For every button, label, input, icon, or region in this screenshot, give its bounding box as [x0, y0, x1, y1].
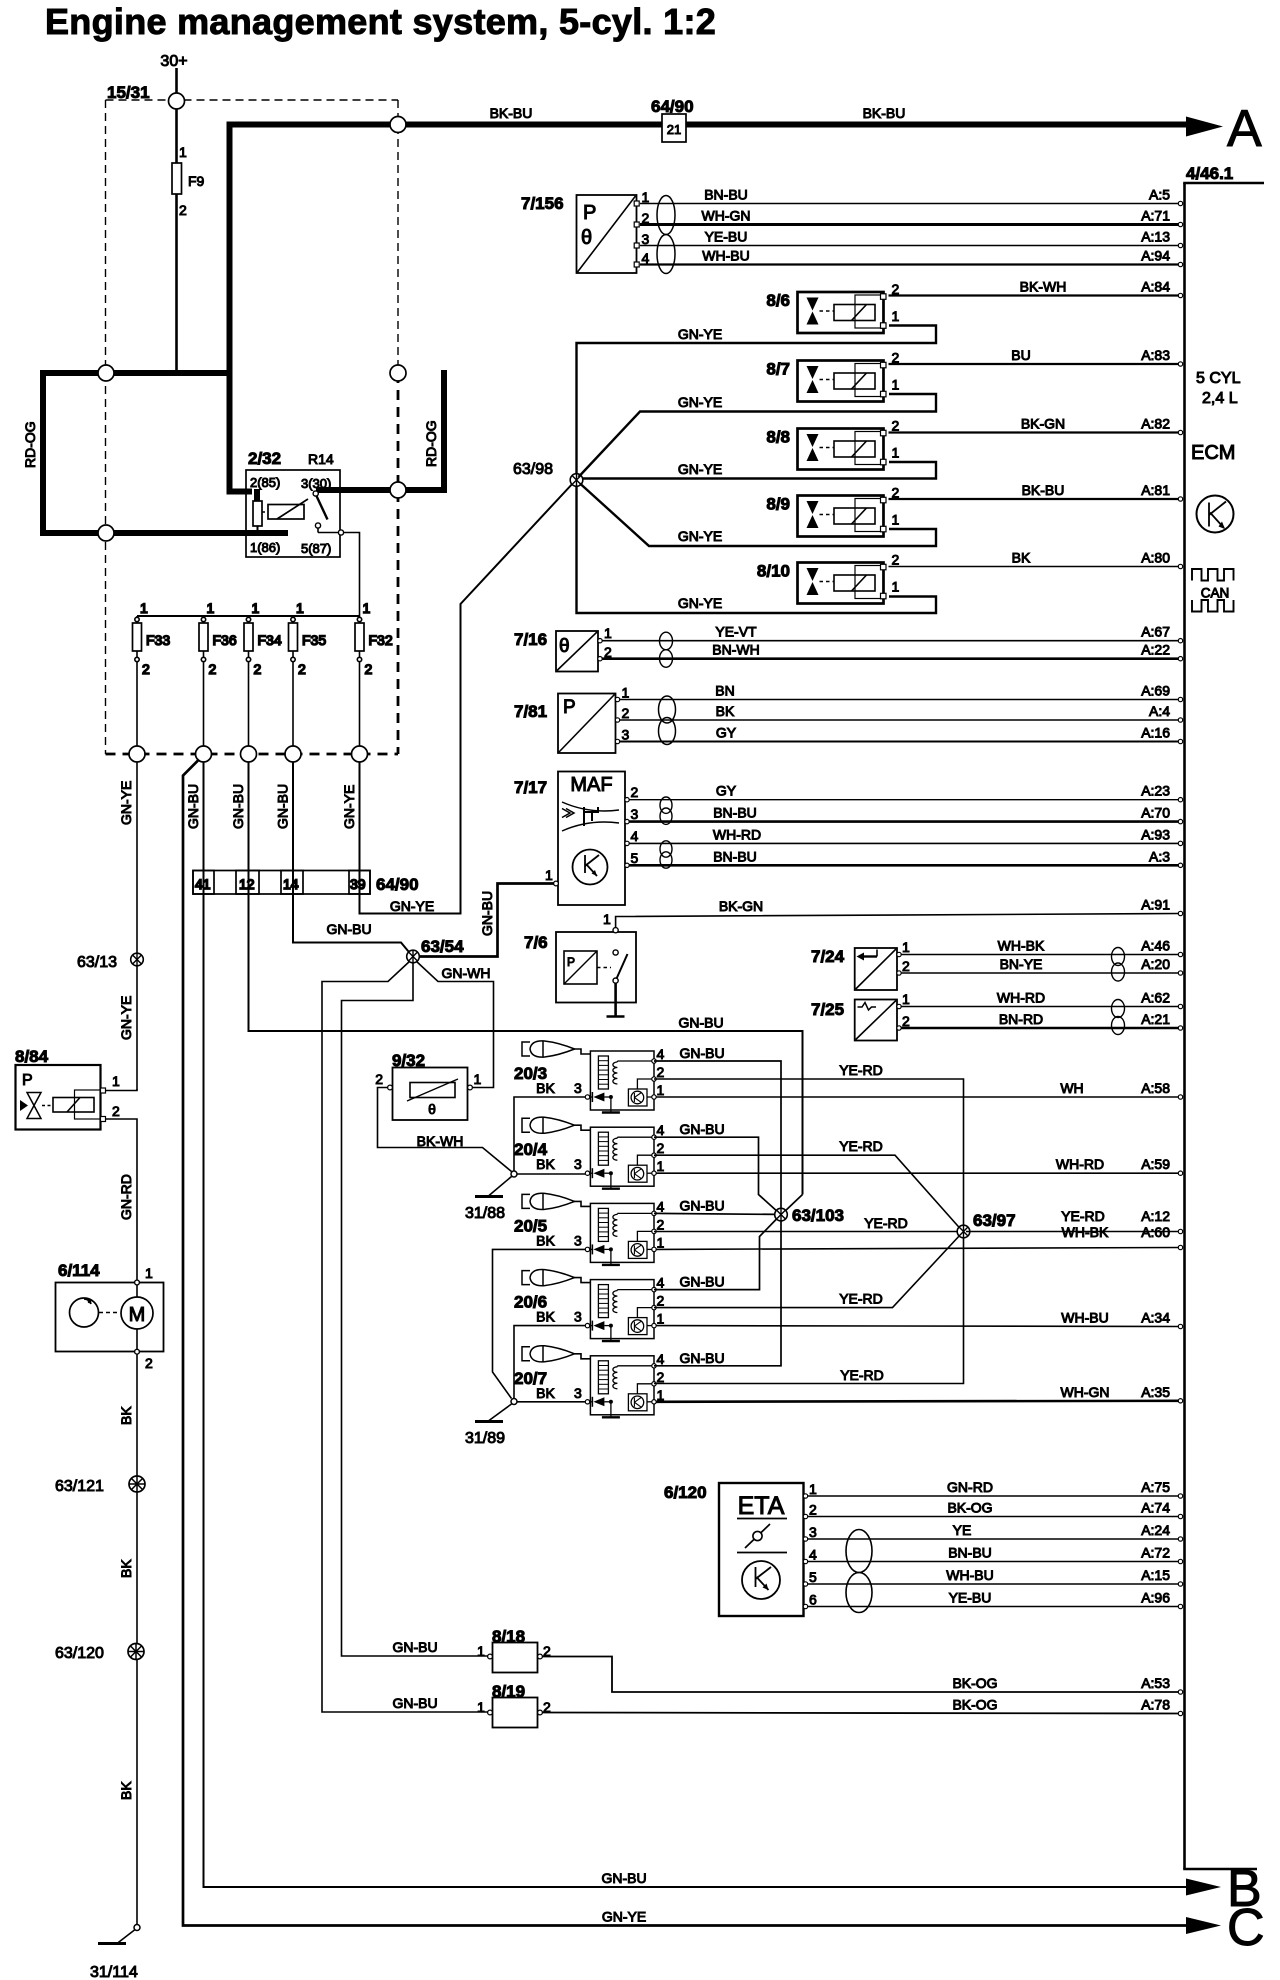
wire BK-GN A:82 — [889, 416, 1183, 435]
svg-text:1: 1 — [892, 308, 900, 324]
mass air flow sensor 7/17 — [514, 772, 639, 906]
svg-text:WH-BU: WH-BU — [1061, 1310, 1108, 1326]
svg-text:A:75: A:75 — [1141, 1479, 1170, 1495]
svg-text:YE-RD: YE-RD — [840, 1367, 884, 1383]
wire WH-BU A:34 — [656, 1310, 1183, 1329]
wire BK-GN 7/6 to ECM A:91 — [616, 914, 1180, 928]
svg-text:A:5: A:5 — [1149, 187, 1170, 203]
svg-text:A:20: A:20 — [1141, 956, 1170, 972]
svg-text:GN-YE: GN-YE — [118, 996, 134, 1040]
svg-text:1: 1 — [545, 867, 553, 883]
svg-text:3: 3 — [574, 1309, 582, 1325]
wire GN-YE F33 down — [136, 762, 138, 1090]
svg-text:WH-BK: WH-BK — [998, 938, 1045, 954]
wire YE-RD 20/4 pin2 — [654, 1155, 961, 1229]
labels A:78 — [952, 1697, 1182, 1716]
svg-text:GN-BU: GN-BU — [679, 1121, 724, 1137]
svg-text:GN-BU: GN-BU — [679, 1197, 724, 1213]
svg-text:2: 2 — [657, 1140, 665, 1156]
twisted pair 7/24 — [1112, 948, 1125, 966]
ignition coil 20/4 — [514, 1117, 665, 1189]
wire WH-GN A:71 — [640, 208, 1183, 227]
svg-text:2(85): 2(85) — [250, 475, 280, 490]
relay switch — [313, 491, 318, 496]
solenoid valve 8/84 — [15, 1047, 120, 1130]
wire WH-RD A:62 — [901, 990, 1183, 1009]
wire RD-OG loop left — [40, 373, 46, 533]
svg-text:ECM: ECM — [1191, 442, 1235, 464]
wire fuse feed rail — [137, 615, 360, 617]
svg-text:F34: F34 — [258, 632, 282, 648]
valve cross — [27, 1093, 41, 1106]
svg-text:63/97: 63/97 — [973, 1211, 1016, 1230]
svg-text:1: 1 — [477, 1699, 485, 1715]
svg-text:4: 4 — [809, 1547, 817, 1563]
svg-text:A:74: A:74 — [1141, 1500, 1170, 1516]
svg-text:A:96: A:96 — [1141, 1590, 1170, 1606]
svg-text:BN-YE: BN-YE — [1000, 956, 1043, 972]
svg-text:5 CYL: 5 CYL — [1196, 370, 1241, 387]
svg-text:A:16: A:16 — [1141, 725, 1170, 741]
wire RD-OG bottom to relay 1(86) — [40, 530, 288, 536]
svg-text:A:80: A:80 — [1141, 550, 1170, 566]
svg-text:4: 4 — [631, 828, 639, 844]
svg-text:7/25: 7/25 — [811, 1000, 844, 1019]
wire GN-YE 8/6 return — [577, 326, 937, 475]
svg-text:θ: θ — [581, 227, 592, 249]
wire BK-WH A:84 — [889, 279, 1183, 298]
svg-text:63/98: 63/98 — [513, 461, 553, 478]
svg-text:2: 2 — [365, 661, 373, 677]
svg-text:RD-OG: RD-OG — [423, 420, 439, 467]
svg-text:BN-BU: BN-BU — [713, 848, 757, 864]
wire BN A:69 — [620, 683, 1183, 702]
svg-text:A:24: A:24 — [1141, 1522, 1170, 1538]
svg-text:BK-OG: BK-OG — [952, 1675, 997, 1691]
fuel pump 6/114 — [56, 1261, 164, 1371]
svg-text:3: 3 — [574, 1080, 582, 1096]
svg-text:A:23: A:23 — [1141, 783, 1170, 799]
throttle unit 6/120 ETA — [664, 1481, 817, 1616]
svg-text:1: 1 — [657, 1311, 665, 1327]
svg-text:2: 2 — [298, 661, 306, 677]
wire GN-BU 20/6 pin4 — [654, 1217, 779, 1290]
svg-text:2: 2 — [902, 958, 910, 974]
svg-text:3(30): 3(30) — [301, 476, 331, 491]
svg-text:GN-BU: GN-BU — [230, 784, 246, 829]
injector 8/10 — [757, 552, 900, 604]
sensor 7/156 pressure/temp — [521, 189, 650, 273]
wire relay 3(30) to RD-OG right — [316, 487, 447, 493]
svg-text:8/10: 8/10 — [757, 562, 790, 581]
svg-text:3: 3 — [809, 1524, 817, 1540]
svg-text:GN-YE: GN-YE — [678, 595, 722, 611]
svg-text:31/89: 31/89 — [465, 1430, 505, 1447]
sensor 7/16 temp — [514, 625, 612, 672]
terminal A:91 — [1141, 897, 1183, 916]
svg-text:7/16: 7/16 — [514, 630, 547, 649]
svg-text:3: 3 — [642, 231, 650, 247]
wire YE-BU A:96 — [808, 1590, 1183, 1609]
wire GN-YE 8/7 return — [579, 394, 937, 477]
relay 2/32 R14 — [246, 449, 344, 557]
svg-text:8/6: 8/6 — [766, 291, 790, 310]
wire BK 6/114 down to ground — [136, 1354, 138, 1925]
wire 8/84 pin2 GN-RD down to 6/114 — [106, 1119, 137, 1280]
svg-text:CAN: CAN — [1201, 586, 1230, 601]
svg-text:Engine management system, 5-cy: Engine management system, 5-cyl. 1:2 — [45, 1, 716, 42]
svg-text:2: 2 — [179, 202, 187, 218]
twisted pair 7/16 — [660, 632, 673, 650]
wire thick into relay 2(85) — [230, 489, 253, 492]
speed sensor 7/24 — [811, 939, 910, 990]
svg-text:5: 5 — [631, 850, 639, 866]
svg-text:63/121: 63/121 — [55, 1478, 104, 1495]
injector 8/9 — [766, 485, 899, 537]
svg-text:2: 2 — [142, 661, 150, 677]
wire YE-RD 20/6 pin2 — [654, 1234, 961, 1308]
svg-text:A:15: A:15 — [1141, 1567, 1170, 1583]
svg-text:7/24: 7/24 — [811, 947, 845, 966]
fuse F33 — [133, 600, 171, 754]
arrow B — [1186, 1879, 1221, 1896]
svg-text:2: 2 — [375, 1071, 383, 1087]
svg-text:GN-YE: GN-YE — [678, 461, 722, 477]
svg-text:2: 2 — [657, 1064, 665, 1080]
wire BK-WH 9/32 pin2 to coil BK node — [378, 1088, 512, 1172]
svg-text:A:69: A:69 — [1141, 683, 1170, 699]
svg-text:1: 1 — [892, 512, 900, 528]
svg-text:P: P — [563, 697, 576, 718]
svg-text:A:67: A:67 — [1141, 624, 1170, 640]
svg-text:63/54: 63/54 — [421, 937, 464, 956]
svg-text:1: 1 — [145, 1265, 153, 1281]
junction bus x dashed — [390, 117, 406, 133]
svg-text:WH: WH — [1060, 1080, 1083, 1096]
wire BK 20/7 from node — [517, 1401, 585, 1403]
svg-text:1: 1 — [604, 625, 612, 641]
svg-text:BK-OG: BK-OG — [952, 1697, 997, 1713]
svg-text:1: 1 — [642, 189, 650, 205]
svg-text:A:84: A:84 — [1141, 279, 1170, 295]
ground 31/89 — [489, 1404, 512, 1421]
injector 8/7 — [766, 350, 899, 402]
labels A:53 — [952, 1675, 1182, 1694]
svg-text:1: 1 — [657, 1082, 665, 1098]
svg-text:WH-BK: WH-BK — [1062, 1224, 1109, 1240]
svg-text:WH-GN: WH-GN — [1061, 1384, 1110, 1400]
svg-text:2: 2 — [892, 552, 900, 568]
svg-text:F32: F32 — [369, 632, 393, 648]
svg-text:2: 2 — [809, 1502, 817, 1518]
svg-text:5(87): 5(87) — [301, 541, 331, 556]
svg-text:BK-GN: BK-GN — [1021, 416, 1065, 432]
svg-text:GN-YE: GN-YE — [390, 898, 434, 914]
svg-text:A:81: A:81 — [1141, 482, 1170, 498]
svg-text:1: 1 — [622, 685, 630, 701]
svg-text:A:35: A:35 — [1141, 1384, 1170, 1400]
svg-text:2: 2 — [112, 1103, 120, 1119]
wire BK-OG A:74 — [808, 1500, 1183, 1519]
svg-text:2: 2 — [902, 1013, 910, 1029]
wire GN-BU F36 down to arrow B — [204, 762, 1193, 1887]
wire GN-YE F32 down to 63/98 riser — [360, 482, 575, 914]
svg-text:7/17: 7/17 — [514, 778, 547, 797]
svg-text:A:3: A:3 — [1149, 848, 1170, 864]
svg-text:A:21: A:21 — [1141, 1011, 1170, 1027]
svg-text:4: 4 — [657, 1046, 665, 1062]
ignition coil 20/3 — [514, 1040, 665, 1112]
svg-text:BK: BK — [536, 1385, 555, 1401]
wire BK 20/3 to node — [514, 1097, 585, 1171]
svg-text:GN-YE: GN-YE — [678, 326, 722, 342]
wire relay 5(87) to fuse row — [344, 533, 360, 617]
svg-text:2: 2 — [631, 784, 639, 800]
relay coil resistor — [254, 489, 260, 501]
wire RD-OG right vertical — [441, 370, 447, 493]
wire BN-BU A:5 — [640, 187, 1183, 206]
svg-text:A:53: A:53 — [1141, 1675, 1170, 1691]
svg-text:BK-GN: BK-GN — [719, 898, 763, 914]
svg-text:BK: BK — [118, 1781, 134, 1800]
wire GN-BU feed diagonal into 63/103 — [783, 1195, 803, 1214]
svg-text:ETA: ETA — [738, 1492, 785, 1520]
svg-text:A:72: A:72 — [1141, 1545, 1170, 1561]
svg-text:GN-BU: GN-BU — [479, 891, 495, 936]
wire WH-BK A:60 — [656, 1224, 1183, 1250]
wire GN-BU F34 down — [249, 762, 803, 1195]
svg-text:1: 1 — [892, 377, 900, 393]
wire F9 to RD-OG bus — [175, 194, 178, 373]
svg-text:15/31: 15/31 — [107, 83, 150, 102]
svg-text:5: 5 — [809, 1569, 817, 1585]
svg-text:GN-BU: GN-BU — [601, 1870, 646, 1886]
svg-text:63/103: 63/103 — [792, 1206, 844, 1225]
wire GN-RD A:75 — [808, 1479, 1183, 1498]
knock sensor 7/25 — [811, 991, 910, 1041]
svg-text:3: 3 — [622, 727, 630, 743]
svg-text:WH-BU: WH-BU — [946, 1567, 993, 1583]
wire BN-WH A:22 — [602, 642, 1183, 661]
wire 63/54 diag to 8/19 — [322, 961, 490, 1713]
svg-text:3: 3 — [574, 1385, 582, 1401]
wire YE-RD 20/5 pin2 — [654, 1231, 964, 1233]
svg-text:P: P — [567, 955, 575, 969]
svg-text:GN-BU: GN-BU — [679, 1045, 724, 1061]
svg-text:BN: BN — [715, 683, 734, 699]
svg-text:F33: F33 — [146, 632, 170, 648]
svg-text:2,4 L: 2,4 L — [1202, 390, 1238, 407]
svg-text:63/120: 63/120 — [55, 1645, 104, 1662]
svg-text:C: C — [1227, 1899, 1265, 1957]
svg-text:BK-WH: BK-WH — [1020, 279, 1067, 295]
svg-text:2: 2 — [892, 418, 900, 434]
svg-text:8/84: 8/84 — [15, 1047, 49, 1066]
svg-text:2: 2 — [254, 661, 262, 677]
svg-text:8/9: 8/9 — [766, 495, 790, 514]
node coil BK lower — [511, 1399, 517, 1405]
svg-text:3: 3 — [574, 1232, 582, 1248]
svg-text:63/13: 63/13 — [77, 954, 117, 971]
svg-text:2: 2 — [657, 1293, 665, 1309]
wire GN-YE 8/9 return — [580, 484, 936, 547]
twisted pair 7/81 — [659, 696, 676, 723]
svg-text:F35: F35 — [302, 632, 326, 648]
svg-text:6: 6 — [809, 1592, 817, 1608]
svg-text:30+: 30+ — [160, 53, 187, 70]
svg-text:A:70: A:70 — [1141, 805, 1170, 821]
svg-text:1: 1 — [474, 1071, 482, 1087]
svg-text:8/8: 8/8 — [766, 428, 790, 447]
svg-text:BK-BU: BK-BU — [490, 105, 533, 121]
svg-text:3: 3 — [574, 1156, 582, 1172]
wire GN-BU 20/4 pin4 — [654, 1137, 779, 1213]
svg-text:R14: R14 — [308, 451, 334, 467]
svg-text:39: 39 — [350, 876, 366, 892]
wire GN-WH 63/54 to 9/32 pin1 — [416, 961, 494, 1088]
junction 63/103 — [775, 1208, 788, 1221]
wire WH-GN A:35 — [656, 1384, 1183, 1403]
CAN symbol — [1192, 569, 1234, 581]
svg-text:1: 1 — [892, 445, 900, 461]
junction 30+ on dashed box — [169, 93, 185, 109]
twisted pair 7/17 a — [660, 797, 672, 813]
fuse F9 — [172, 163, 182, 194]
ECM driver symbol — [1197, 496, 1234, 533]
svg-text:1: 1 — [296, 600, 304, 616]
svg-text:7/81: 7/81 — [514, 702, 547, 721]
ignition coil 20/7 — [514, 1345, 665, 1417]
svg-text:1: 1 — [902, 939, 910, 955]
svg-text:A:13: A:13 — [1141, 229, 1170, 245]
svg-text:BN-BU: BN-BU — [948, 1545, 992, 1561]
wire RD-OG top — [40, 370, 233, 376]
svg-text:BN-WH: BN-WH — [712, 642, 759, 658]
svg-text:1: 1 — [477, 1643, 485, 1659]
svg-text:GN-BU: GN-BU — [275, 784, 291, 829]
arrow C — [1186, 1917, 1221, 1934]
wire GY A:23 — [629, 783, 1183, 802]
wire 63/54 to MAF pin1 GN-BU — [414, 884, 556, 957]
svg-text:1: 1 — [112, 1073, 120, 1089]
svg-text:6/114: 6/114 — [58, 1261, 100, 1280]
svg-text:GN-BU: GN-BU — [326, 921, 371, 937]
svg-text:31/88: 31/88 — [465, 1205, 505, 1222]
junction RD-OG bottom x dashed — [98, 525, 114, 541]
relay coil — [268, 505, 304, 520]
injector 8/6 — [766, 281, 899, 333]
wire WH-BU A:94 — [640, 248, 1183, 267]
junction RD-OG top x dashed — [98, 365, 114, 381]
twisted pair 6/120 — [846, 1530, 872, 1573]
ignition coil 20/6 — [514, 1269, 665, 1341]
svg-text:A:83: A:83 — [1141, 347, 1170, 363]
ECM 4/46.1 connector column — [1183, 164, 1264, 1869]
ignition coil 20/5 — [514, 1193, 665, 1265]
svg-text:GN-YE: GN-YE — [118, 781, 134, 825]
svg-text:A:91: A:91 — [1141, 897, 1170, 913]
svg-text:F36: F36 — [213, 632, 237, 648]
svg-text:BK-WH: BK-WH — [417, 1133, 464, 1149]
wire main BK-BU bus to A — [230, 125, 1193, 495]
svg-text:2/32: 2/32 — [248, 449, 281, 468]
svg-text:7/156: 7/156 — [521, 194, 564, 213]
wire WH A:58 — [656, 1080, 1183, 1099]
svg-text:A:71: A:71 — [1141, 208, 1170, 224]
injector 8/8 — [766, 418, 899, 470]
svg-text:3: 3 — [631, 806, 639, 822]
svg-text:BN-BU: BN-BU — [713, 805, 757, 821]
wire BN-RD A:21 — [901, 1011, 1183, 1030]
svg-text:GN-BU: GN-BU — [392, 1639, 437, 1655]
svg-text:MAF: MAF — [570, 774, 612, 796]
wire GN-BU F35 down to 63/54 — [293, 762, 411, 955]
wire BK 20/6 to lower node — [514, 1326, 585, 1399]
wire WH-RD A:93 — [629, 826, 1183, 845]
svg-text:YE-BU: YE-BU — [705, 229, 748, 245]
fuse F34 — [244, 600, 282, 754]
svg-text:WH-RD: WH-RD — [1056, 1156, 1104, 1172]
svg-text:GN-YE: GN-YE — [678, 528, 722, 544]
svg-text:BK: BK — [716, 703, 735, 719]
fuse F32 — [355, 600, 393, 754]
svg-text:WH-RD: WH-RD — [997, 990, 1045, 1006]
svg-text:GN-BU: GN-BU — [392, 1695, 437, 1711]
wire GN-YE 8/8 return — [583, 462, 936, 479]
fuse F35 — [289, 600, 327, 754]
svg-text:GN-BU: GN-BU — [185, 784, 201, 829]
svg-text:RD-OG: RD-OG — [22, 421, 38, 468]
svg-text:2: 2 — [209, 661, 217, 677]
svg-text:4: 4 — [657, 1122, 665, 1138]
wire BN-BU A:3 — [629, 848, 1183, 867]
wire 30+ down to F9 — [175, 68, 178, 163]
svg-text:BK-BU: BK-BU — [863, 105, 906, 121]
wire BK-BU A:81 — [889, 482, 1183, 501]
twisted pair 7/25 — [1112, 1000, 1125, 1018]
svg-text:BN-BU: BN-BU — [704, 187, 748, 203]
svg-text:YE: YE — [953, 1522, 972, 1538]
svg-text:1: 1 — [657, 1234, 665, 1250]
svg-text:YE-RD: YE-RD — [864, 1215, 908, 1231]
svg-text:θ: θ — [559, 636, 570, 657]
svg-text:P: P — [583, 202, 596, 224]
svg-text:1: 1 — [179, 144, 187, 160]
svg-text:4: 4 — [657, 1198, 665, 1214]
svg-text:GY: GY — [716, 725, 737, 741]
svg-text:A:22: A:22 — [1141, 642, 1170, 658]
svg-text:A:34: A:34 — [1141, 1310, 1170, 1326]
svg-text:BK-BU: BK-BU — [1022, 482, 1065, 498]
svg-text:GN-RD: GN-RD — [947, 1479, 993, 1495]
svg-text:BK: BK — [536, 1232, 555, 1248]
svg-text:4/46.1: 4/46.1 — [1186, 164, 1233, 183]
wire WH-BU A:15 — [808, 1567, 1183, 1586]
svg-text:GN-BU: GN-BU — [679, 1350, 724, 1366]
wire BN-BU A:72 — [808, 1545, 1183, 1564]
svg-text:1: 1 — [363, 600, 371, 616]
wire GN-BU 20/3+20/7 pin4 trunk — [654, 1061, 781, 1366]
wire GY A:16 — [620, 725, 1183, 744]
svg-text:6/120: 6/120 — [664, 1483, 707, 1502]
svg-text:1: 1 — [892, 579, 900, 595]
junction 63/97 — [957, 1225, 970, 1238]
svg-text:A:82: A:82 — [1141, 416, 1170, 432]
svg-text:BK: BK — [536, 1156, 555, 1172]
svg-text:1: 1 — [657, 1158, 665, 1174]
svg-text:2: 2 — [145, 1355, 153, 1371]
svg-text:WH-RD: WH-RD — [713, 826, 761, 842]
